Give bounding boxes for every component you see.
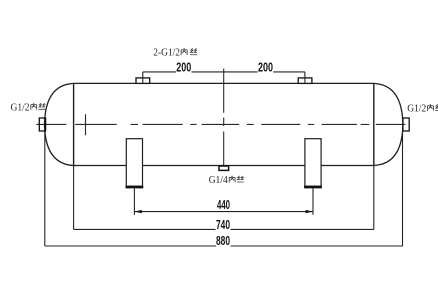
vertical centerline	[223, 69, 225, 167]
left leg	[126, 139, 144, 187]
right head	[374, 83, 403, 165]
shell bottom line	[74, 165, 374, 167]
svg-text:880: 880	[216, 234, 230, 248]
top nozzle right	[298, 78, 312, 84]
svg-text:740: 740	[216, 218, 230, 232]
dim 440 arrow right	[306, 210, 313, 213]
svg-text:G1/2: G1/2	[11, 102, 30, 113]
right tangent line	[373, 83, 375, 165]
right leg	[304, 139, 322, 187]
horizontal centerline	[36, 123, 405, 125]
shell top line	[74, 82, 374, 84]
svg-text:G1/2: G1/2	[407, 103, 426, 114]
dim 740	[74, 166, 374, 230]
bottom nozzle	[219, 166, 229, 170]
svg-text:440: 440	[217, 198, 230, 212]
left side nozzle	[39, 118, 45, 131]
dim 200 extension right through nozzle	[304, 72, 306, 84]
svg-text:G1/4: G1/4	[209, 175, 229, 186]
right side nozzle	[403, 118, 409, 131]
dim 440	[134, 188, 313, 215]
svg-text:200: 200	[258, 61, 273, 75]
dim 200 line	[143, 71, 305, 73]
dim 200 extension left through nozzle	[142, 72, 144, 84]
left tangent line	[73, 83, 75, 165]
top nozzle left	[136, 78, 150, 84]
centerline tick	[85, 114, 87, 135]
svg-text:200: 200	[176, 61, 191, 75]
svg-text:2-G1/2: 2-G1/2	[153, 48, 180, 59]
dim 880	[45, 132, 403, 247]
left head	[45, 83, 74, 165]
dim 440 arrow left	[135, 210, 142, 213]
